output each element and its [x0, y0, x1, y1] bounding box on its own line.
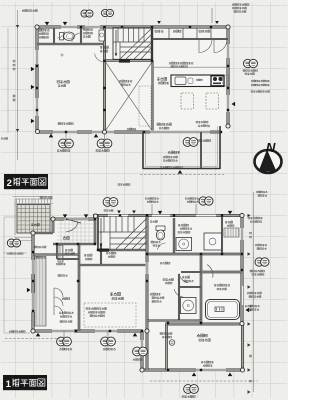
- dim tick 2F left a: [16, 25, 19, 28]
- label washitsu note3: [60, 315, 72, 317]
- wall 2F right: [227, 26, 229, 126]
- label under-stair 1F b: [108, 256, 115, 258]
- leader 1F top b: [195, 204, 197, 215]
- dining table dashed 2: [206, 93, 219, 109]
- ceiling mark 2F bedroom: [61, 54, 63, 56]
- vent marker 2F left a: [31, 67, 35, 72]
- dim text 2F left e: [13, 99, 15, 101]
- joint 1F top-right: [240, 213, 244, 217]
- dim tick 2F left b: [16, 129, 19, 132]
- label 2F bedroom2: [157, 123, 171, 125]
- label 1F right note6: [247, 309, 259, 311]
- vent marker 2F left c: [31, 119, 35, 124]
- vent marker 2F top b: [63, 22, 68, 26]
- bathtub 1F: [206, 300, 240, 320]
- label left closet: [36, 257, 46, 259]
- wall 1F porch-left join: [33, 232, 53, 234]
- wall 1F ext bottom: [141, 369, 244, 371]
- door arc 1F sanitary: [174, 289, 183, 297]
- window 1F stairs top: [108, 215, 128, 217]
- label ext closet2: [162, 336, 172, 338]
- label 2F right circ note2: [245, 73, 255, 75]
- svg-text:2: 2: [7, 178, 12, 189]
- dim text 1F right a: [250, 232, 252, 234]
- label 1F dim topleft: [40, 197, 52, 199]
- wall 1F sic bottom: [57, 258, 79, 259]
- label washitsu note4: [60, 321, 72, 323]
- stairs 1F: [98, 216, 147, 250]
- door arc 2F wic: [57, 31, 65, 38]
- vent marker 1F right: [246, 308, 250, 313]
- window 2F bottom-mid: [150, 131, 210, 133]
- label 2F right circ note: [243, 70, 258, 72]
- wall 1F bath bottom: [165, 323, 242, 325]
- wall 1F toilet right: [173, 218, 175, 254]
- window 2F bottom-left 1: [53, 131, 77, 133]
- dim tick 1F right 5: [248, 368, 251, 371]
- wall 2F under closet row: [37, 43, 105, 45]
- window 1F right toilet: [241, 228, 243, 240]
- window code 1F ext bottom: [184, 385, 199, 394]
- label 1F right above-circle: [255, 244, 267, 246]
- label 2F closet band a: [173, 30, 181, 32]
- kitchen counter 2F: [171, 75, 224, 87]
- label 2F bedroom1: [57, 81, 69, 84]
- label storage right 1F b: [227, 225, 234, 227]
- label 1F right note4: [249, 296, 261, 298]
- wall 2F WIC divider: [53, 28, 54, 44]
- dim text 2F left a: [13, 60, 15, 62]
- label 1F above-stair: [104, 210, 113, 212]
- balcony 2F inner line: [146, 127, 218, 167]
- wall 1F left upper: [52, 218, 54, 233]
- label 2F WIC: [39, 29, 49, 31]
- window code 2F balcony: [183, 138, 198, 147]
- label shutter 1F ext: [182, 396, 195, 398]
- joint 2F bottom-right: [226, 124, 230, 128]
- refrigerator 2F dashed: [223, 75, 229, 86]
- vent marker 2F top d: [215, 21, 219, 24]
- sliding door 1F ldk-hall: [146, 262, 148, 274]
- dim text 1F right a2: [250, 236, 252, 238]
- window 1F entry door: [64, 218, 88, 220]
- label 2F note right-bottom2: [198, 125, 210, 127]
- label 2F right note a: [251, 80, 270, 82]
- wall 1F ext left: [141, 331, 143, 371]
- label 1F right note2: [252, 273, 264, 275]
- wall 1F bottom-left: [32, 330, 143, 332]
- dining table dashed 1: [181, 93, 194, 109]
- label 2F kitchen maker: [169, 62, 193, 64]
- window code 2F bottom a: [59, 139, 74, 148]
- doorway threshold 2F stairs: [119, 59, 130, 63]
- label washitsu note: [62, 298, 70, 300]
- label floorheat: [86, 308, 106, 310]
- vent marker 1F top c2: [132, 211, 136, 214]
- joint 1F ext bl: [140, 368, 144, 372]
- vent marker 1F bottom b: [133, 333, 138, 337]
- porch tiles 1F: [17, 205, 50, 234]
- label 2F washroom3: [83, 36, 90, 38]
- label bedroom1 size 1F: [199, 339, 210, 341]
- label hall size: [165, 282, 172, 284]
- wall 2F balcony divider: [200, 132, 201, 168]
- label 2F roof balcony note2: [232, 7, 247, 9]
- entry door leaf: [66, 219, 81, 223]
- label 2F bedroom2 size: [159, 127, 169, 129]
- leader line 2F bottom a: [65, 132, 67, 149]
- dim tick 1F right 6: [248, 390, 251, 393]
- label sanitary 1F b: [184, 280, 194, 282]
- dim tick 1F right 2: [248, 285, 251, 288]
- vent marker 1F left: [27, 288, 31, 293]
- label 2F bedroom1 size: [58, 85, 66, 87]
- vent marker 1F top c3: [158, 211, 163, 215]
- wall 1F top main: [93, 214, 243, 216]
- label toilet 1F b: [151, 241, 161, 243]
- dim tick 1F right 3: [248, 322, 251, 325]
- dim text 1F right b2: [250, 309, 252, 311]
- window 2F right upper: [227, 44, 229, 58]
- label bath 1F b: [217, 288, 227, 290]
- joint 2F top-right: [226, 25, 230, 29]
- wall 2F stair bottom: [105, 60, 153, 62]
- leader 1F top a: [151, 204, 153, 215]
- door arc 1F bath: [207, 265, 213, 278]
- window code 1F top left: [103, 198, 118, 207]
- window 1F right bath: [242, 286, 244, 305]
- dim text 2F left d: [13, 95, 15, 97]
- label 2F roof balcony note3: [234, 11, 246, 13]
- wall 1F washroom bottom: [147, 253, 242, 255]
- vent marker 1F ext bottom a: [192, 373, 197, 377]
- joint 1F ext br: [240, 368, 244, 372]
- joint 1F top-left: [51, 217, 55, 221]
- closet fold doors 1F: [54, 288, 63, 315]
- label washitsu size: [58, 275, 68, 277]
- label SIC: [65, 249, 73, 251]
- vent marker 2F bottom a: [49, 134, 54, 138]
- label 2F kitchen model: [171, 66, 188, 68]
- label hall mid 1F: [160, 262, 170, 264]
- vanity 1F: [204, 233, 222, 250]
- window code 2F bottom b: [97, 139, 112, 148]
- label storage right 1F: [225, 221, 233, 223]
- window 1F top right b: [196, 215, 216, 217]
- wall 1F entry/stair: [94, 218, 96, 244]
- window code 2F top b: [102, 9, 114, 16]
- label 1F dim topcenter: [118, 184, 130, 186]
- wall 1F bath left: [200, 254, 202, 324]
- door arc 1F toilet: [157, 243, 165, 250]
- wall 1F sanitary bottom: [147, 320, 201, 321]
- dashed line below 1F ext: [150, 380, 258, 382]
- label 1F left dim2: [9, 331, 25, 333]
- north compass: [255, 140, 282, 173]
- label sanitary low2: [152, 297, 164, 299]
- leader 2F top right: [211, 8, 213, 23]
- joint 1F left-mid: [31, 231, 35, 235]
- label washroom 1F c: [178, 231, 190, 233]
- window 1F ext bottom: [196, 369, 226, 371]
- label 2F LDK: [157, 78, 167, 81]
- vent marker 2F left b: [31, 85, 35, 90]
- window 2F left upper: [36, 50, 38, 64]
- vent marker 2F balcony bottom: [178, 170, 183, 174]
- leader line 1F bottom b: [107, 331, 109, 347]
- dimension line 1F far-right: [253, 192, 255, 392]
- dashed line 1F left bottom: [5, 338, 60, 340]
- label 2F right note b: [251, 84, 270, 86]
- label 2F balcony: [168, 151, 180, 154]
- wall 1F stair left: [97, 215, 98, 250]
- label 2F closet right: [155, 30, 163, 32]
- label LDK 1F: [110, 293, 121, 296]
- label shutter 1F b: [103, 348, 116, 350]
- wall 2F toilet divider: [80, 28, 81, 44]
- label toilet 1F c: [153, 245, 160, 247]
- wall 1F ldk top: [79, 264, 147, 266]
- wall 1F hall right: [100, 244, 101, 265]
- label 2F LDK size: [158, 82, 169, 84]
- vent marker 2F right: [232, 102, 236, 107]
- label 1F top note b2: [187, 201, 198, 203]
- entry tile floor 1F: [57, 220, 93, 244]
- label sanitary 1F: [182, 276, 190, 278]
- doorway threshold 1F stairs: [99, 249, 109, 252]
- label bedroom1 1F: [197, 334, 207, 337]
- vent marker 1F bottom a: [36, 333, 41, 337]
- wall 1F right: [241, 215, 243, 324]
- window 2F top wash: [85, 26, 100, 28]
- label 2F note mid-bottom: [127, 128, 136, 130]
- label 1F right note5: [245, 305, 260, 307]
- svg-text:N: N: [266, 140, 276, 155]
- dashed property line below 2F balcony: [140, 174, 224, 176]
- label 1F top note a2: [147, 201, 158, 203]
- dimension line 2F left: [7, 28, 9, 133]
- ext closet circle: [169, 340, 175, 346]
- label shutter 2F b: [96, 150, 109, 152]
- door arc 2F bedroom: [95, 53, 105, 62]
- svg-text:1: 1: [6, 379, 12, 390]
- wall 1F stair bottom: [98, 249, 147, 251]
- label kitchen L2550: [196, 79, 202, 81]
- wall 1F ext right: [241, 323, 243, 371]
- joint 2F bottom-left: [35, 129, 39, 133]
- label ext closet: [160, 333, 172, 335]
- balcony 2F walls: [143, 126, 220, 169]
- stove 2F: [211, 76, 224, 86]
- wall 1F washitsu top: [33, 254, 79, 255]
- window code 1F bath right: [255, 258, 269, 266]
- label shutter 1F a: [60, 348, 73, 350]
- label shutter 2F balcony: [198, 140, 211, 142]
- storage hatch 1F right: [224, 228, 239, 237]
- dim tick 1F right 1: [248, 252, 251, 255]
- label SIC2: [65, 253, 75, 255]
- label bedroom1 note: [201, 361, 214, 363]
- closet door arcs 2F: [199, 40, 227, 53]
- window 1F left washitsu: [32, 260, 34, 274]
- label 2F void2: [121, 84, 131, 86]
- stairs 2F: [113, 28, 152, 60]
- label 2F right note c: [251, 91, 270, 93]
- door arc 1F entry: [66, 222, 78, 231]
- bulkhead line 2F kitchen: [154, 66, 228, 68]
- joint 2F top-left: [35, 25, 39, 29]
- dim text 2F left b: [13, 64, 15, 66]
- title box 2F (2-kai heimenzu): [4, 174, 48, 189]
- window 1F bottom a: [52, 330, 74, 332]
- door arc 1F hall: [179, 274, 188, 283]
- wall 2F bottom-left: [36, 131, 144, 133]
- label sanitary low3: [152, 300, 162, 302]
- wall 1F ext closet right: [166, 324, 168, 370]
- window 1F ext left: [141, 340, 143, 356]
- label 2F closet band b: [199, 30, 210, 32]
- joint 1F bottom-left: [31, 329, 35, 333]
- label 1F top note b: [185, 198, 199, 200]
- window code 2F right: [244, 59, 258, 67]
- wall 1F entry bottom: [53, 243, 95, 245]
- label 1F topright note: [248, 217, 263, 219]
- door arc 2F toilet: [72, 33, 80, 42]
- dim tick 1F right 4: [248, 343, 251, 346]
- dim text 1F right c: [250, 355, 252, 357]
- wall 2F left: [36, 26, 38, 133]
- label toilet 1F: [150, 221, 157, 223]
- dimension line 2F far-left: [17, 10, 19, 160]
- wall 2F stairwell right: [151, 27, 153, 61]
- label washroom 1F: [178, 224, 188, 226]
- label midright margin2: [258, 195, 267, 197]
- shoe closet hatch 1F: [58, 246, 63, 263]
- washbasin 2F: [99, 30, 105, 41]
- vent marker 1F top d: [228, 211, 233, 215]
- columns 2F: [36, 26, 229, 133]
- label genkan: [63, 237, 69, 240]
- porch step lines: [13, 197, 54, 236]
- porch approach steps: [14, 238, 34, 241]
- dim text 1F right d: [250, 380, 252, 382]
- label 2F WIC 2: [39, 33, 49, 35]
- washer pan 1F washroom: [176, 238, 192, 251]
- label left margin 2F: [1, 138, 8, 140]
- title box 1F (1-kai heimenzu): [3, 375, 47, 390]
- dim tick 1F right 0: [248, 214, 251, 217]
- vent marker 1F top a: [63, 214, 68, 218]
- window 1F bottom b: [95, 330, 117, 332]
- 2F floor area background: [37, 27, 229, 132]
- void dashed area: [139, 86, 151, 126]
- vent marker 2F bottom b: [94, 134, 99, 138]
- vent marker 1F top c: [117, 211, 121, 214]
- void over LDK diagonals: [106, 62, 153, 131]
- wall 2F top: [36, 26, 229, 28]
- utility sink 1F: [181, 298, 197, 314]
- label floorheat2: [88, 311, 105, 313]
- wall 1F top entry: [53, 218, 95, 220]
- label 1F right note3: [247, 292, 262, 294]
- label 1F left dim: [7, 253, 23, 255]
- wall 2F center vertical: [103, 27, 105, 132]
- wall 2F bottom-mid: [143, 131, 221, 133]
- window 2F bottom-left 2: [92, 131, 114, 133]
- label floorheat3: [90, 315, 105, 317]
- label washroom 1F b: [180, 228, 192, 230]
- leader line 1F bottom a: [63, 331, 65, 347]
- 1F floor extension background: [142, 323, 243, 370]
- dim text 1F right b: [250, 305, 252, 307]
- wall 2F void right: [152, 61, 153, 132]
- wall 1F sic right: [78, 244, 80, 331]
- label hall 1F: [84, 254, 92, 256]
- label 2F WIC 3: [39, 36, 49, 38]
- label bath 1F: [214, 284, 230, 286]
- wall 1F left: [32, 232, 34, 332]
- window 2F top toilet: [61, 26, 77, 28]
- window code 2F top a: [81, 10, 93, 17]
- vent marker 2F top c: [157, 21, 161, 24]
- label washitsu note2: [59, 312, 74, 314]
- wall 1F center vertical: [146, 216, 148, 371]
- label 1F mid circ: [133, 359, 143, 361]
- wall 2F closet band bottom: [152, 38, 228, 39]
- label sanitary low: [150, 293, 160, 295]
- label 2F washroom: [83, 29, 93, 31]
- window 2F right lower: [227, 95, 229, 112]
- joint 2F mid: [102, 130, 106, 134]
- label bedroom1 note2: [203, 365, 213, 367]
- window code 1F left: [7, 239, 20, 247]
- 1F floor area background: [33, 216, 243, 331]
- label 2F hall2: [100, 50, 108, 52]
- label 2F note right-bottom: [196, 121, 208, 123]
- vent marker 1F top b: [84, 214, 89, 218]
- wall 1F bath top: [201, 271, 242, 273]
- leader line 2F bottom b: [104, 132, 106, 149]
- window 1F top right a: [152, 215, 170, 217]
- wall 1F sanitary divider: [178, 274, 179, 321]
- joint 1F center: [145, 329, 149, 333]
- window 2F left lower: [36, 98, 38, 116]
- wall 1F storage divider: [221, 216, 222, 254]
- floor heating dashed area: [84, 303, 136, 327]
- window code 1F bottom b: [101, 337, 116, 346]
- joint 1F right-mid: [240, 321, 244, 325]
- wall 1F bath ante top: [181, 271, 201, 272]
- dimension line 1F left: [3, 217, 30, 333]
- label porch: [31, 224, 39, 226]
- wall 1F hall bottom mid: [179, 286, 201, 287]
- label 2F hall: [100, 46, 108, 48]
- label 2F dim topleft: [22, 10, 37, 12]
- label 2F washroom2: [83, 32, 93, 34]
- vent marker 2F top a: [45, 22, 50, 26]
- label 2F laundry bar: [58, 123, 73, 125]
- label 1F topright note2: [250, 221, 262, 223]
- vent marker 1F ext bottom b: [228, 373, 233, 377]
- label washitsu: [56, 263, 66, 265]
- label 1F top note a: [145, 198, 159, 200]
- window 1F left mid: [32, 293, 34, 312]
- label 1F right above-circle2: [257, 248, 267, 250]
- window code 1F top right: [199, 197, 213, 205]
- wall 2F closet dividers: [0, 0, 1, 1]
- window code 1F bottom a: [57, 337, 72, 346]
- window code 1F mid: [133, 347, 148, 356]
